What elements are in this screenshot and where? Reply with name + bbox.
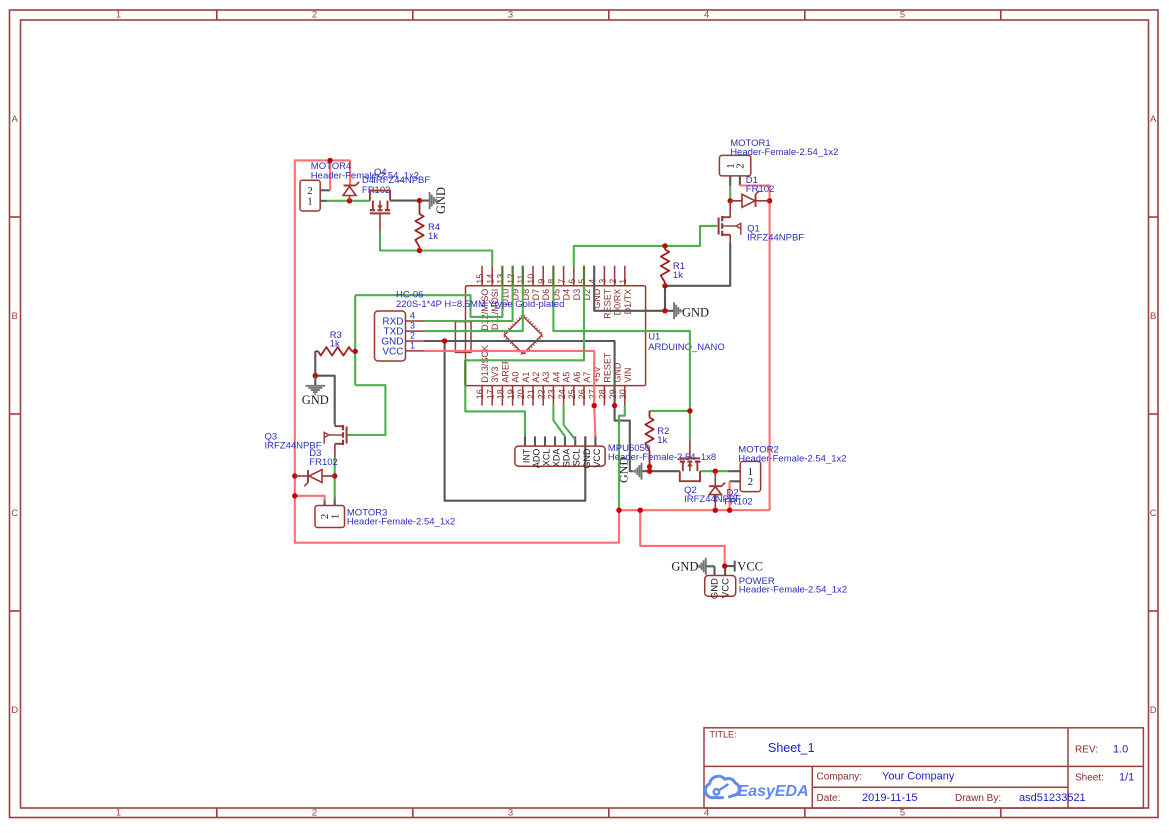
svg-text:VCC: VCC bbox=[382, 346, 403, 357]
svg-text:2: 2 bbox=[735, 163, 747, 169]
svg-text:Header-Female-2.54_1x2: Header-Female-2.54_1x2 bbox=[311, 170, 419, 181]
svg-text:19: 19 bbox=[506, 389, 516, 399]
svg-text:AREF: AREF bbox=[500, 358, 510, 383]
svg-text:A3: A3 bbox=[541, 372, 551, 383]
label MOTOR3 bbox=[347, 508, 455, 528]
wire +5V to MPU VCC red bbox=[594, 406, 595, 437]
wire D3 to MOTOR3 pin1 green bbox=[334, 476, 336, 500]
U1 top pins 15..1 bbox=[482, 266, 625, 286]
svg-text:SDA: SDA bbox=[562, 449, 572, 468]
U1 chip diamond glyph bbox=[504, 316, 542, 354]
svg-text:2: 2 bbox=[410, 330, 415, 340]
svg-text:TITLE:: TITLE: bbox=[710, 730, 737, 740]
transistor Q2 labels bbox=[684, 485, 741, 505]
connector HC-06 mating box bbox=[455, 322, 471, 353]
transistor Q4 IRFZ44NPBF bbox=[370, 191, 390, 231]
svg-text:A1: A1 bbox=[521, 372, 531, 383]
svg-text:D3: D3 bbox=[572, 289, 582, 301]
svg-text:GND: GND bbox=[434, 187, 448, 214]
svg-text:INT: INT bbox=[522, 448, 532, 463]
svg-text:1/1: 1/1 bbox=[1119, 772, 1134, 784]
svg-text:REV:: REV: bbox=[1075, 745, 1098, 756]
svg-text:A6: A6 bbox=[572, 372, 582, 383]
wire U1 pin4 GND dark bbox=[594, 266, 674, 311]
svg-text:A7: A7 bbox=[582, 372, 592, 383]
svg-text:asd51233521: asd51233521 bbox=[1019, 792, 1086, 804]
svg-text:VCC: VCC bbox=[720, 578, 731, 598]
ground symbol at Q4 bbox=[430, 187, 448, 214]
svg-text:A: A bbox=[12, 114, 19, 125]
svg-text:GND: GND bbox=[671, 560, 698, 574]
junction dots bbox=[292, 158, 772, 569]
resistor R3 bbox=[315, 347, 355, 355]
svg-text:1k: 1k bbox=[657, 435, 667, 446]
wire R1 bottom to GND dark bbox=[664, 286, 666, 311]
svg-text:26: 26 bbox=[577, 389, 587, 399]
svg-text:Header-Female-2.54_1x2: Header-Female-2.54_1x2 bbox=[347, 516, 455, 527]
svg-text:4: 4 bbox=[704, 10, 709, 21]
diode D1 FR102 bbox=[730, 191, 769, 208]
svg-text:1: 1 bbox=[329, 514, 341, 520]
diode D4 FR102 bbox=[343, 182, 359, 201]
wire HC-06 GND bus dark bbox=[425, 341, 615, 406]
frame row letters bbox=[11, 114, 1157, 716]
connector MPU6050 body bbox=[515, 446, 605, 466]
svg-text:2: 2 bbox=[608, 279, 618, 284]
svg-text:3: 3 bbox=[410, 321, 415, 331]
wire pin29 GND to ground symbol dark bbox=[615, 406, 634, 472]
resistor R4 labels bbox=[428, 222, 440, 242]
svg-text:4: 4 bbox=[704, 807, 709, 818]
connector MOTOR1 body bbox=[719, 155, 750, 176]
svg-text:GND: GND bbox=[302, 393, 329, 407]
wire Q4 source to GND dark bbox=[390, 200, 430, 202]
resistor R3 labels bbox=[330, 330, 342, 350]
svg-text:2: 2 bbox=[748, 476, 754, 488]
svg-text:RESET: RESET bbox=[602, 352, 612, 383]
op-amp U1 ARDUINO_NANO body bbox=[466, 286, 646, 386]
svg-text:29: 29 bbox=[608, 389, 618, 399]
svg-text:5: 5 bbox=[900, 10, 905, 21]
svg-text:1: 1 bbox=[116, 10, 121, 21]
wire MOTOR2 pin2 red bbox=[729, 481, 731, 510]
U1 top pin numbers bbox=[475, 274, 628, 284]
svg-text:D: D bbox=[1150, 705, 1157, 716]
svg-text:12: 12 bbox=[506, 274, 516, 284]
svg-text:D: D bbox=[11, 705, 18, 716]
svg-text:FR102: FR102 bbox=[309, 457, 338, 468]
ground symbol at POWER bbox=[671, 558, 705, 575]
svg-text:C: C bbox=[1150, 508, 1157, 519]
svg-text:17: 17 bbox=[485, 389, 495, 399]
svg-text:IRFZ44NPBF: IRFZ44NPBF bbox=[684, 494, 741, 505]
svg-text:23: 23 bbox=[547, 389, 557, 399]
svg-text:1k: 1k bbox=[330, 339, 340, 350]
label MOTOR2 bbox=[738, 445, 846, 465]
svg-text:1.0: 1.0 bbox=[1113, 744, 1128, 756]
U1 bottom pin numbers bbox=[475, 389, 628, 399]
MPU6050 pin labels bbox=[522, 448, 602, 469]
svg-text:VCC: VCC bbox=[592, 448, 602, 468]
connector MOTOR1 pins bbox=[730, 176, 740, 186]
connector MOTOR3 pins bbox=[325, 496, 335, 506]
svg-text:28: 28 bbox=[598, 389, 608, 399]
svg-text:Header-Female-2.54_1x2: Header-Female-2.54_1x2 bbox=[739, 585, 847, 596]
frame column numbers bbox=[116, 10, 905, 819]
svg-text:A2: A2 bbox=[531, 372, 541, 383]
connector MOTOR4 body bbox=[300, 180, 320, 211]
U1 bottom pin labels bbox=[480, 345, 633, 383]
U1 bottom pins 16..30 bbox=[482, 386, 625, 406]
svg-text:U1: U1 bbox=[648, 332, 660, 343]
diode D3 FR102 bbox=[295, 470, 335, 487]
diode D2 labels bbox=[724, 488, 753, 508]
svg-text:IRFZ44NPBF: IRFZ44NPBF bbox=[747, 232, 804, 243]
U1 top pin labels bbox=[480, 288, 633, 331]
svg-text:A4: A4 bbox=[551, 372, 561, 383]
transistor Q1 labels bbox=[747, 224, 804, 244]
svg-text:22: 22 bbox=[536, 389, 546, 399]
svg-text:3: 3 bbox=[598, 279, 608, 284]
svg-text:Drawn By:: Drawn By: bbox=[955, 793, 1001, 804]
svg-text:Header-Female-2.54_1x2: Header-Female-2.54_1x2 bbox=[730, 147, 838, 158]
wire MOTOR1 pin2 to red rail bbox=[740, 186, 770, 201]
U1 reference labels bbox=[648, 332, 725, 354]
svg-text:VCC: VCC bbox=[737, 560, 763, 574]
label MOTOR1 bbox=[730, 138, 838, 158]
wire R3 to Q3 gate green bbox=[347, 385, 386, 435]
wire HC-06 RXD to D9 green bbox=[425, 266, 513, 321]
ground symbol at R3 bbox=[302, 376, 329, 407]
svg-text:XDA: XDA bbox=[552, 449, 562, 468]
wire MOTOR4 pin2 riser red bbox=[329, 159, 331, 190]
wire overlap segments olive bbox=[465, 266, 584, 386]
diode D3 labels bbox=[309, 448, 338, 468]
svg-text:21: 21 bbox=[526, 389, 536, 399]
VCC power flag bbox=[735, 560, 763, 574]
connector HC-06 pin labels bbox=[381, 310, 415, 357]
svg-text:1: 1 bbox=[410, 340, 415, 350]
wire right red rail D1 to MOTOR2 bus bbox=[769, 201, 771, 510]
svg-text:7: 7 bbox=[557, 279, 567, 284]
svg-text:VIN: VIN bbox=[623, 368, 633, 383]
svg-text:Your Company: Your Company bbox=[882, 771, 955, 783]
svg-text:B: B bbox=[1150, 311, 1156, 322]
transistor Q3 labels bbox=[265, 432, 322, 452]
svg-text:9: 9 bbox=[536, 279, 546, 284]
resistor R2 bbox=[645, 411, 653, 471]
svg-text:3V3: 3V3 bbox=[490, 367, 500, 383]
connector MOTOR3 body bbox=[315, 506, 345, 528]
svg-text:GND: GND bbox=[682, 305, 709, 319]
svg-text:B: B bbox=[12, 311, 18, 322]
title block bbox=[704, 728, 1143, 808]
wire D3/pin6 to R1 and Q1 gate green bbox=[574, 226, 717, 266]
svg-text:FR102: FR102 bbox=[746, 184, 775, 195]
wire POWER VCC to flag dark bbox=[725, 565, 735, 567]
transistor Q3 IRFZ44NPBF bbox=[324, 424, 346, 457]
svg-text:15: 15 bbox=[475, 274, 485, 284]
wire D5 to Q2 gate green bbox=[553, 266, 690, 411]
wire HC-06 VCC to +5V red bbox=[425, 351, 595, 406]
ground symbol at R1 bbox=[674, 302, 709, 319]
ground symbol at MPU bbox=[617, 457, 642, 483]
svg-text:16: 16 bbox=[475, 389, 485, 399]
svg-text:24: 24 bbox=[557, 389, 567, 399]
transistor Q1 IRFZ44NPBF bbox=[719, 201, 741, 243]
svg-text:8: 8 bbox=[547, 279, 557, 284]
connector POWER pins bbox=[715, 566, 726, 575]
svg-text:27: 27 bbox=[587, 389, 597, 399]
svg-text:1: 1 bbox=[307, 196, 313, 208]
resistor R1 labels bbox=[673, 261, 685, 281]
svg-text:14: 14 bbox=[485, 274, 495, 284]
wire R3 net vertical green bbox=[354, 295, 356, 385]
svg-text:5: 5 bbox=[900, 807, 905, 818]
svg-text:2: 2 bbox=[312, 807, 317, 818]
svg-text:Sheet:: Sheet: bbox=[1075, 773, 1104, 784]
svg-text:18: 18 bbox=[496, 389, 506, 399]
svg-text:1: 1 bbox=[116, 807, 121, 818]
svg-text:4: 4 bbox=[410, 310, 415, 320]
svg-text:XCL: XCL bbox=[542, 449, 552, 467]
svg-text:GND: GND bbox=[582, 448, 592, 469]
wire MOTOR4 pin1 to Q4 drain green bbox=[327, 200, 370, 202]
wire MOTOR3 pin2 red bbox=[295, 496, 325, 501]
wire Q1 source to R1 dark bbox=[665, 243, 730, 286]
connector MOTOR2 pins bbox=[728, 471, 740, 481]
diode D1 labels bbox=[746, 175, 775, 195]
svg-text:220S-1*4P H=8.5MM Ytype Gold-p: 220S-1*4P H=8.5MM Ytype Gold-plated bbox=[396, 299, 564, 310]
POWER pin labels bbox=[710, 578, 732, 599]
wire VIN to red bus green bbox=[619, 406, 625, 511]
svg-text:Sheet_1: Sheet_1 bbox=[768, 741, 815, 755]
svg-text:Date:: Date: bbox=[817, 793, 841, 804]
connector MOTOR4 pins bbox=[320, 190, 330, 201]
svg-text:EasyEDA: EasyEDA bbox=[738, 783, 809, 800]
label HC-06 bbox=[396, 290, 564, 311]
svg-text:A0: A0 bbox=[511, 372, 521, 383]
wire left red rail bbox=[295, 159, 619, 542]
connector POWER body bbox=[705, 576, 736, 597]
connector MPU6050 pins bbox=[525, 436, 595, 446]
svg-text:4: 4 bbox=[587, 279, 597, 284]
wire R3 left to GND dark bbox=[315, 351, 334, 424]
transistor Q4 labels bbox=[373, 167, 430, 186]
connector HC-06 body bbox=[375, 311, 406, 361]
svg-text:11: 11 bbox=[516, 274, 526, 283]
svg-text:C: C bbox=[11, 508, 18, 519]
transistor Q2 IRFZ44NPBF bbox=[680, 440, 700, 481]
svg-text:1: 1 bbox=[618, 279, 628, 284]
wire red top bus MOTOR4 bbox=[295, 160, 350, 185]
svg-text:1k: 1k bbox=[428, 231, 438, 242]
svg-text:5: 5 bbox=[577, 279, 587, 284]
wire MOTOR1 pin1 green bbox=[729, 186, 731, 201]
svg-text:GND: GND bbox=[710, 578, 721, 599]
svg-text:20: 20 bbox=[516, 389, 526, 399]
wire A4 to SDA green bbox=[553, 406, 565, 437]
svg-text:3: 3 bbox=[508, 807, 513, 818]
connector MOTOR2 body bbox=[740, 461, 760, 491]
wire Q2 to MOTOR2 pin1 green bbox=[700, 470, 728, 472]
svg-text:SCL: SCL bbox=[572, 449, 582, 467]
wire D2 detour to MPU INT green bbox=[465, 266, 584, 437]
label MOTOR4 bbox=[311, 161, 419, 181]
svg-text:Header-Female-2.54_1x2: Header-Female-2.54_1x2 bbox=[738, 453, 846, 464]
svg-text:2019-11-15: 2019-11-15 bbox=[862, 792, 917, 804]
wire VCC branch to POWER red bbox=[640, 510, 725, 566]
wire red bottom bus VCC net bbox=[619, 509, 770, 511]
EasyEDA logo bbox=[705, 776, 808, 800]
svg-text:30: 30 bbox=[618, 389, 628, 399]
svg-text:1k: 1k bbox=[673, 270, 683, 281]
svg-text:ADO: ADO bbox=[532, 449, 542, 469]
svg-text:13: 13 bbox=[496, 274, 506, 284]
wire Q4 gate to R4 and D11 green bbox=[380, 231, 492, 266]
label MPU6050 bbox=[608, 443, 716, 463]
diode D4 labels bbox=[362, 175, 391, 196]
svg-text:A: A bbox=[1150, 114, 1157, 125]
wire GND branch to MPU GND dark bbox=[445, 341, 586, 501]
title block texts bbox=[710, 730, 1135, 805]
wire R2 top green bbox=[650, 410, 690, 412]
resistor R1 bbox=[661, 246, 669, 286]
wire A5 to SCL green bbox=[564, 406, 576, 440]
svg-text:IRFZ44NPBF: IRFZ44NPBF bbox=[265, 440, 322, 451]
resistor R2 labels bbox=[657, 426, 669, 446]
svg-text:RESET: RESET bbox=[602, 288, 612, 319]
svg-text:2: 2 bbox=[312, 10, 317, 21]
resistor R4 bbox=[415, 201, 423, 251]
wire Q2 gate drop green bbox=[689, 411, 691, 440]
label POWER bbox=[739, 576, 847, 596]
wire POWER GND dark bbox=[706, 565, 715, 567]
wire Q3 source to D3 green bbox=[334, 457, 336, 476]
wire R3 to D10 green bbox=[355, 266, 502, 317]
svg-text:Header-Female-2.54_1x8: Header-Female-2.54_1x8 bbox=[608, 452, 716, 463]
diode D2 FR102 bbox=[709, 471, 725, 510]
svg-text:ARDUINO_NANO: ARDUINO_NANO bbox=[648, 342, 725, 353]
svg-text:Company:: Company: bbox=[817, 772, 863, 783]
wire HC-06 TXD to D8 green bbox=[425, 266, 523, 331]
svg-text:A5: A5 bbox=[562, 372, 572, 383]
svg-text:3: 3 bbox=[508, 10, 513, 21]
connector HC-06 pins bbox=[406, 321, 425, 351]
svg-text:6: 6 bbox=[567, 279, 577, 284]
svg-text:25: 25 bbox=[567, 389, 577, 399]
wire ground to R2 and Q2 dark bbox=[642, 470, 680, 472]
svg-text:10: 10 bbox=[526, 274, 536, 284]
